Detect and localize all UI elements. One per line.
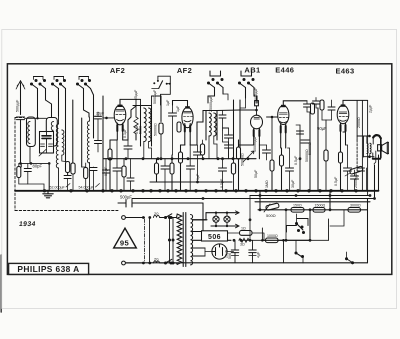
rectifier tube	[205, 244, 234, 259]
svg-text:0.5µF: 0.5µF	[334, 176, 338, 186]
svg-text:50000Ω: 50000Ω	[241, 153, 245, 166]
svg-text:1934: 1934	[18, 221, 36, 228]
coil can 2	[46, 118, 57, 147]
variable resistor diagonal	[264, 203, 279, 218]
transformer core	[183, 213, 186, 267]
bottom section verticals	[260, 191, 368, 240]
bottom line switch	[346, 252, 354, 264]
power transformer secondary	[191, 215, 193, 265]
mains wire vertical	[149, 218, 151, 264]
tube V1 AF2 envelope	[114, 105, 126, 125]
svg-text:1500Ω: 1500Ω	[315, 204, 326, 208]
screen top stub	[15, 117, 24, 119]
svg-text:0.1µF: 0.1µF	[135, 124, 139, 134]
right verticals to rails	[367, 155, 379, 199]
svg-text:0.5µF: 0.5µF	[294, 155, 298, 165]
chassis inner border left (screen, dashed)	[14, 118, 16, 211]
antenna arrow	[16, 81, 25, 115]
svg-text:506: 506	[228, 253, 232, 259]
AVC resistor x172	[170, 155, 174, 191]
tone switch feed wires	[287, 219, 329, 241]
E446 anode load vertical x300	[296, 125, 304, 191]
padder switch group mid	[152, 76, 171, 105]
bias resistor 2	[313, 204, 325, 213]
V2 anode decoupling pair	[194, 145, 202, 182]
bandpass trimmer block	[39, 132, 54, 157]
svg-text:1µF: 1µF	[176, 105, 180, 112]
label arrow a	[66, 184, 70, 188]
AB1 top component	[255, 96, 259, 115]
T2 secondary resistor	[200, 140, 204, 159]
supply rail verticals right	[203, 196, 250, 241]
mid vertical wires	[21, 100, 93, 190]
voltage selector wires	[169, 217, 175, 265]
AB1 grid feed line	[217, 109, 258, 112]
T1 secondary winding	[149, 108, 151, 142]
extra resistor x124	[122, 159, 126, 191]
decoupling cap x165	[161, 159, 169, 191]
V2 bypass cap	[187, 145, 195, 191]
anode cap B	[313, 98, 320, 109]
grid leak zigzag resistor	[134, 117, 138, 140]
coil can 1	[27, 117, 36, 147]
detector caps cluster	[223, 128, 233, 159]
svg-text:506: 506	[208, 234, 221, 241]
diagonal resistor right	[345, 166, 363, 176]
svg-text:25000µµF: 25000µµF	[209, 95, 213, 112]
tube V2 electrodes	[184, 112, 193, 146]
svg-text:E446: E446	[275, 66, 294, 75]
svg-text:3Ω: 3Ω	[240, 243, 245, 247]
tube V5 E463 envelope	[337, 104, 349, 123]
500uF mains capacitor	[118, 200, 135, 208]
HT rail mid	[103, 158, 256, 160]
T2 primary winding	[209, 113, 211, 136]
detector filter caps	[223, 130, 233, 159]
electrolytic cap 2	[249, 240, 256, 262]
svg-text:25µF: 25µF	[225, 249, 229, 258]
bias resistor 1	[291, 204, 304, 213]
more value labels	[253, 135, 309, 178]
HT rail mid junction dots	[109, 157, 250, 160]
dial lamp feed bend	[193, 213, 207, 220]
IF transformer T2 frame	[203, 111, 217, 141]
switch group 5 (osc b)	[239, 71, 258, 103]
earth bus junction dots	[43, 189, 358, 192]
svg-text:500µµF: 500µµF	[16, 99, 20, 112]
bias resistor 3	[348, 204, 361, 213]
smoothing resistor	[228, 227, 265, 241]
supply rail a	[250, 195, 370, 197]
svg-text:AF2: AF2	[177, 66, 192, 75]
osc coil wiring	[223, 94, 246, 108]
chassis inner border right	[367, 199, 369, 263]
V1 cathode resistor	[108, 140, 117, 191]
dial lamp 1	[213, 212, 219, 228]
fuse top 20	[142, 211, 160, 219]
detector load wiring	[239, 140, 260, 159]
switch drop wires	[38, 89, 94, 119]
label arrow b	[96, 184, 100, 188]
svg-text:80pF: 80pF	[33, 164, 43, 169]
filter zigzag resistor	[239, 238, 250, 246]
svg-text:50000Ω: 50000Ω	[305, 149, 309, 162]
volume pot wiper arrow	[243, 151, 254, 162]
grid stopper cap	[328, 100, 335, 120]
output grid resistor x326	[322, 120, 332, 190]
svg-text:500µF: 500µF	[120, 195, 132, 200]
V2 grid resistor	[177, 119, 181, 140]
scan artifact left edge streak	[0, 255, 2, 312]
dial lamp 2	[224, 212, 230, 228]
svg-text:1Ω: 1Ω	[241, 227, 246, 231]
earth bus (thick)	[15, 190, 379, 192]
tone network caps right	[351, 170, 359, 190]
antenna series capacitor	[17, 117, 27, 163]
bias network line	[258, 209, 368, 211]
svg-text:52.000µF: 52.000µF	[50, 185, 66, 189]
output transformer windings	[367, 136, 371, 157]
wave switch group 1	[31, 77, 46, 89]
speaker magnet bracket	[373, 135, 381, 159]
junction line left	[21, 162, 50, 164]
mains switch linkage (dash-dot)	[144, 219, 146, 261]
V1 anode wire	[123, 106, 136, 140]
cap 80pF	[24, 164, 44, 190]
AVC cap x222	[219, 159, 227, 191]
V2 grid top wire	[173, 101, 188, 107]
tone capacitor right	[358, 164, 365, 178]
svg-text:20: 20	[154, 211, 159, 216]
extra cap x106	[103, 159, 110, 191]
V1 cathode bypass cap	[113, 140, 121, 191]
padder capacitor right	[95, 141, 102, 153]
mains switch bottom	[160, 259, 177, 264]
chassis inner border bottom	[126, 262, 368, 264]
mains switch top	[160, 214, 177, 219]
anode cap A	[304, 101, 311, 112]
svg-text:95: 95	[120, 238, 130, 247]
field line right	[264, 239, 310, 241]
tube V3 AB1 envelope	[251, 115, 263, 129]
long vertical x240	[239, 100, 241, 148]
lower bias line	[228, 240, 263, 245]
V1 grid top wire	[120, 99, 141, 117]
long vertical x310	[309, 112, 311, 191]
feed line to rectifier	[202, 203, 204, 231]
output transformer primary	[357, 135, 374, 158]
V4 cathode resistor	[280, 148, 284, 191]
tube V3 diode legs	[254, 128, 260, 145]
svg-text:E463: E463	[335, 67, 354, 76]
aerial coil A	[28, 122, 30, 164]
switch group 4 (osc)	[208, 71, 224, 103]
AB1 anode bar	[254, 117, 259, 119]
dial lamp top line	[206, 211, 239, 215]
svg-text:20: 20	[154, 256, 159, 261]
svg-text:0.1µF: 0.1µF	[123, 128, 127, 138]
grid leak resistor E446	[270, 160, 274, 191]
grid coupling cap V2	[169, 105, 177, 155]
chassis inner border bottom-left rail (dashed)	[15, 210, 118, 212]
V2 anode wire	[190, 111, 203, 146]
rectifier box 506	[202, 231, 228, 241]
link line to coil cans	[21, 115, 47, 120]
cap right of Rv3	[90, 167, 97, 190]
AF coupling cap	[259, 145, 270, 160]
speaker feed wires	[374, 150, 378, 164]
anode wire V5	[343, 131, 346, 133]
svg-text:PHILIPS 638 A: PHILIPS 638 A	[17, 264, 79, 274]
dial lamp bottom line	[211, 224, 239, 228]
resistor Rv2	[71, 163, 75, 190]
wave switch group 3	[77, 77, 91, 89]
switch lower row	[295, 240, 304, 263]
T1 primary winding	[144, 108, 146, 142]
tube V4 electrodes	[279, 113, 288, 148]
decoupling line left	[135, 202, 203, 204]
supply rail c	[255, 201, 370, 203]
svg-text:54.000µF: 54.000µF	[79, 185, 95, 189]
tube V1 electrodes	[116, 110, 125, 141]
screen resistor chain x156	[155, 159, 159, 182]
svg-text:500Ω: 500Ω	[266, 213, 276, 218]
border frame	[7, 64, 391, 275]
tube V5 electrodes	[339, 112, 348, 145]
svg-text:1µF: 1µF	[196, 173, 200, 180]
T2 secondary winding	[214, 113, 216, 136]
svg-text:1000Ω: 1000Ω	[267, 234, 278, 238]
bias resistor lower	[241, 234, 310, 243]
svg-text:1µF: 1µF	[166, 99, 170, 106]
svg-text:25pF: 25pF	[96, 112, 105, 116]
V5 anode top wire	[343, 100, 368, 195]
oscillator coil C	[56, 116, 65, 190]
svg-text:30µF: 30µF	[291, 179, 295, 188]
svg-text:4µF: 4µF	[257, 251, 261, 258]
interstage cap	[301, 132, 309, 159]
long vertical x318	[317, 108, 319, 191]
V4 anode top wire	[283, 101, 307, 105]
V3 input wire	[256, 96, 259, 103]
extra cap x130.5	[127, 159, 134, 191]
svg-text:10000µµF: 10000µµF	[253, 135, 257, 152]
V1 anode decoupling cap	[124, 140, 132, 159]
tone switch	[296, 214, 305, 234]
speaker cone	[378, 142, 389, 153]
T2 tails	[209, 136, 217, 159]
rails junction dots lower	[202, 194, 332, 242]
power transformer primary	[177, 214, 182, 264]
svg-text:1MΩ: 1MΩ	[265, 180, 269, 188]
screen rail	[150, 181, 232, 183]
V5 bypass cap	[344, 145, 352, 191]
svg-text:0.5µF: 0.5µF	[220, 178, 224, 188]
grid side wire	[103, 117, 114, 120]
svg-text:150Ω: 150Ω	[293, 204, 302, 208]
service triangle 95	[114, 228, 137, 248]
resistor Rv1	[66, 162, 70, 176]
svg-text:25µµF: 25µµF	[134, 89, 138, 100]
volume pot track	[237, 140, 241, 191]
svg-text:AF2: AF2	[110, 66, 125, 75]
tube V2 AF2 envelope	[182, 106, 193, 128]
bandpass coil D	[87, 117, 89, 191]
V4 bypass cap	[286, 148, 294, 191]
cap under Rv1	[64, 176, 71, 191]
title box PHILIPS 638 A	[9, 263, 89, 274]
misc value labels	[123, 89, 312, 188]
HT feed up	[249, 203, 251, 240]
tube V4 E446 envelope	[278, 105, 289, 125]
extra junction dots rails	[160, 157, 376, 200]
resistor Rv3	[82, 163, 88, 190]
svg-text:3000Ω: 3000Ω	[350, 204, 361, 208]
svg-text:2000Ω: 2000Ω	[357, 117, 361, 128]
screen divider vertical x161	[152, 96, 164, 159]
V4 grid side wire	[267, 116, 278, 160]
secondary taps	[191, 220, 368, 264]
svg-text:50000Ω: 50000Ω	[154, 123, 158, 136]
electrolytic cap 1	[231, 240, 238, 262]
long vertical feed x103	[102, 96, 104, 191]
fuse bottom 20	[142, 256, 160, 264]
supply rail b	[132, 198, 375, 200]
ground chassis point	[43, 190, 53, 198]
wave switch group 2	[52, 77, 66, 89]
grid resistor R1	[17, 163, 28, 184]
long vertical x233.5	[233, 100, 235, 159]
IF transformer T1 frame	[133, 106, 152, 147]
mains terminal bottom	[122, 261, 145, 265]
filter verticals	[261, 228, 285, 263]
E463 grid components	[311, 100, 325, 120]
AVC resistor x233	[231, 159, 235, 191]
T2 tuning cap	[219, 111, 226, 131]
mains terminal top	[122, 216, 145, 220]
cap 25pF top	[95, 112, 105, 141]
svg-text:AB1: AB1	[244, 66, 260, 75]
svg-text:50µF: 50µF	[254, 169, 258, 178]
V5 cathode network	[339, 145, 343, 191]
aerial coil B	[51, 122, 53, 144]
T1 winding tails	[144, 142, 152, 159]
V4 anode feed vertical	[300, 125, 305, 159]
svg-text:2µµF: 2µµF	[369, 104, 373, 113]
V2 cathode network	[179, 145, 185, 191]
spare node	[356, 140, 358, 171]
